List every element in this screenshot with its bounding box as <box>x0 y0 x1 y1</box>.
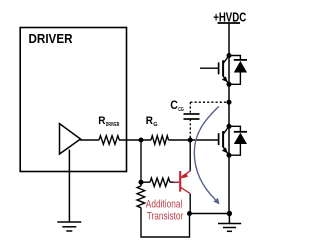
svg-text:DRIVER: DRIVER <box>29 31 74 46</box>
svg-text:Additional: Additional <box>146 199 183 211</box>
svg-text:Transistor: Transistor <box>147 211 184 223</box>
svg-text:G: G <box>153 122 157 128</box>
svg-text:CG: CG <box>178 107 184 113</box>
svg-text:DRIVER: DRIVER <box>106 122 120 128</box>
svg-text:R: R <box>146 115 153 127</box>
svg-text:R: R <box>98 115 105 127</box>
svg-text:+HVDC: +HVDC <box>213 9 246 24</box>
svg-text:C: C <box>170 100 178 112</box>
